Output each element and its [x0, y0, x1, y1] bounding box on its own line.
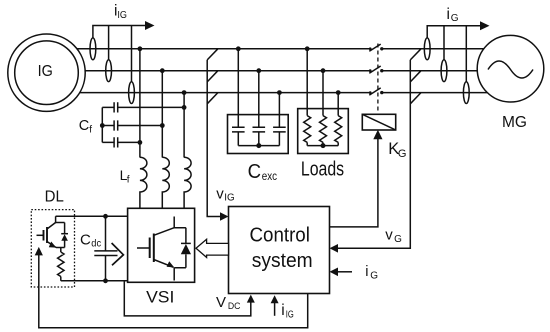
svg-text:i: i — [281, 302, 284, 319]
svg-text:C: C — [80, 231, 91, 248]
svg-text:dc: dc — [91, 238, 101, 250]
svg-text:f: f — [89, 124, 92, 135]
svg-text:v: v — [216, 185, 224, 202]
svg-text:IG: IG — [286, 309, 294, 320]
svg-text:C: C — [248, 161, 261, 183]
svg-text:VSI: VSI — [146, 288, 174, 306]
svg-text:system: system — [252, 250, 313, 272]
svg-text:IG: IG — [117, 10, 127, 21]
svg-text:DC: DC — [228, 301, 241, 312]
svg-text:G: G — [398, 148, 407, 160]
svg-text:C: C — [79, 118, 89, 134]
svg-text:IG: IG — [224, 192, 235, 203]
svg-text:MG: MG — [502, 114, 527, 131]
svg-text:G: G — [394, 234, 402, 245]
svg-text:i: i — [447, 6, 450, 23]
svg-text:DL: DL — [45, 189, 64, 206]
svg-text:G: G — [370, 271, 378, 282]
svg-text:V: V — [216, 294, 226, 311]
svg-text:IG: IG — [38, 63, 53, 80]
svg-text:G: G — [451, 13, 459, 24]
svg-text:f: f — [127, 174, 130, 185]
svg-text:Loads: Loads — [301, 159, 344, 181]
svg-text:i: i — [365, 264, 368, 280]
svg-text:v: v — [385, 227, 393, 244]
svg-text:exc: exc — [262, 169, 277, 183]
svg-text:Control: Control — [250, 225, 310, 247]
